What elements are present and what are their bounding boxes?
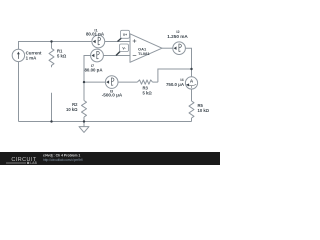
- ammeter probe I2: [167, 30, 188, 55]
- wire op-amp output to I2: [162, 47, 173, 49]
- node dot feedback left: [83, 81, 85, 83]
- ammeter probe I1: [86, 29, 105, 48]
- node dot bottom R1: [50, 120, 52, 122]
- wire R1 top lead: [51, 42, 53, 49]
- node dot bottom ground: [83, 120, 85, 122]
- wire R5 bottom lead: [191, 118, 193, 122]
- wire top rail: [19, 42, 93, 50]
- svg-text:750.0 μA: 750.0 μA: [166, 82, 185, 87]
- wire I2 right corner down: [185, 48, 191, 77]
- resistor R5: [189, 101, 210, 118]
- svg-text:80.00 pA: 80.00 pA: [84, 68, 103, 73]
- resistor R1: [49, 48, 67, 67]
- svg-text:TL081: TL081: [138, 51, 150, 56]
- wire I1 to op-amp plus input: [105, 41, 130, 43]
- resistor R2: [66, 101, 87, 118]
- svg-text:V-: V-: [122, 46, 125, 50]
- wire R2 bottom lead: [83, 117, 85, 122]
- ammeter probe I4: [166, 77, 198, 89]
- net flag V-: [116, 44, 129, 56]
- wire I4 to R5: [191, 89, 193, 101]
- svg-text:1 mA: 1 mA: [26, 55, 38, 60]
- svg-text:http://circuitlab.com/c/pm9rf/: http://circuitlab.com/c/pm9rf/: [43, 158, 83, 162]
- ground: [79, 122, 89, 133]
- ammeter probe I3: [102, 76, 123, 98]
- node dot output right: [190, 68, 192, 70]
- svg-text:5 kΩ: 5 kΩ: [57, 54, 67, 59]
- svg-text:10 kΩ: 10 kΩ: [198, 108, 210, 113]
- wire I3 to R3: [118, 81, 137, 83]
- svg-text:LAB: LAB: [30, 161, 37, 165]
- ammeter probe I7: [84, 49, 103, 72]
- wire I7 left bend down: [84, 56, 91, 83]
- wire R2 top lead: [83, 82, 85, 100]
- svg-text:-500.0 μA: -500.0 μA: [102, 93, 123, 98]
- node dot R1 top: [50, 40, 52, 42]
- wire left down: [18, 62, 20, 122]
- wire R3 right to bend: [153, 81, 158, 83]
- svg-text:10 kΩ: 10 kΩ: [66, 107, 78, 112]
- op-amp OA1 TL081: [130, 34, 162, 63]
- svg-text:1.250 mA: 1.250 mA: [167, 34, 188, 39]
- wire R1 bottom segment: [51, 93, 53, 122]
- wire I7 to op-amp minus input: [103, 55, 130, 57]
- net flag V+: [118, 30, 130, 41]
- svg-text:V+: V+: [123, 33, 127, 37]
- footer bar: [0, 152, 220, 165]
- svg-text:5 kΩ: 5 kΩ: [143, 91, 153, 96]
- wire feedback row left: [84, 81, 105, 83]
- resistor R3: [137, 80, 152, 96]
- current source IS1: [12, 49, 42, 61]
- wire bottom rail: [19, 121, 192, 123]
- wire feedback top link: [158, 69, 192, 82]
- svg-text:80.01 pA: 80.01 pA: [86, 32, 105, 37]
